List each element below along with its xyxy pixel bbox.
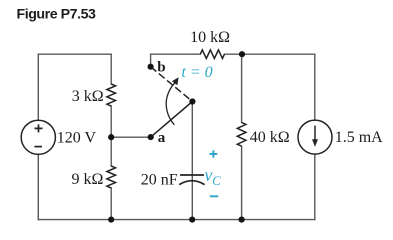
voltage source V 120V circle bbox=[21, 120, 55, 154]
wire left vertical upper bbox=[37, 54, 39, 120]
node b dot bbox=[148, 64, 154, 70]
switch blade solid (pivot to a) bbox=[151, 102, 193, 138]
wire node b stub up bbox=[150, 54, 152, 66]
svg-text:b: b bbox=[157, 59, 165, 75]
wire 9k branch bottom stub bbox=[110, 188, 112, 220]
wire 40k branch top bbox=[241, 54, 243, 122]
wire 3k branch top stub bbox=[110, 54, 112, 84]
svg-text:20 nF: 20 nF bbox=[141, 172, 178, 189]
switch pivot dot bbox=[189, 98, 195, 104]
junction dot bottom capacitor bbox=[189, 217, 195, 223]
current source arrow shaft bbox=[314, 126, 316, 141]
resistor 40k zigzag bbox=[237, 122, 246, 146]
voltage source plus sign bbox=[35, 124, 43, 132]
switch motion arc bbox=[166, 83, 175, 125]
wire 40k branch bottom bbox=[241, 146, 243, 219]
label capacitor minus bbox=[210, 195, 219, 197]
voltage source minus sign bbox=[34, 146, 42, 148]
switch motion arrowhead bbox=[172, 77, 179, 85]
svg-text:t = 0: t = 0 bbox=[181, 64, 212, 81]
svg-text:9 kΩ: 9 kΩ bbox=[72, 171, 104, 188]
resistor 10k zigzag bbox=[200, 50, 224, 59]
junction dot top right bbox=[239, 51, 245, 57]
wire bottom horizontal bbox=[38, 219, 315, 221]
junction dot bottom 40k bbox=[239, 217, 245, 223]
wire top middle to 10k bbox=[151, 53, 201, 55]
svg-text:a: a bbox=[158, 130, 166, 146]
svg-text:vC: vC bbox=[205, 165, 222, 188]
svg-text:10 kΩ: 10 kΩ bbox=[190, 29, 230, 46]
wire right vertical lower bbox=[314, 154, 316, 220]
wire junction to node a bbox=[111, 136, 151, 138]
svg-text:3 kΩ: 3 kΩ bbox=[72, 88, 104, 105]
svg-text:40 kΩ: 40 kΩ bbox=[250, 129, 290, 146]
wire capacitor branch (pivot to bottom) bbox=[191, 102, 193, 220]
wire left vertical lower bbox=[37, 154, 39, 219]
wire right vertical upper bbox=[314, 54, 316, 120]
wire top-left horizontal bbox=[38, 53, 111, 55]
capacitor 20nF curved bottom plate bbox=[179, 181, 204, 185]
svg-text:1.5 mA: 1.5 mA bbox=[335, 129, 383, 146]
junction dot bottom 9k bbox=[108, 217, 114, 223]
resistor 9k zigzag bbox=[107, 166, 116, 188]
label capacitor plus bbox=[210, 150, 218, 158]
svg-text:Figure P7.53: Figure P7.53 bbox=[17, 7, 97, 23]
switch dashed throw (b to pivot) bbox=[151, 67, 193, 102]
current source arrowhead bbox=[312, 139, 318, 147]
wire 10k to top-right corner bbox=[225, 53, 315, 55]
node a dot bbox=[148, 134, 154, 140]
junction dot 3k-9k bbox=[108, 134, 114, 140]
svg-text:120 V: 120 V bbox=[57, 130, 97, 147]
resistor 3k zigzag bbox=[107, 84, 116, 106]
wire 3k-9k middle segment bbox=[110, 106, 112, 166]
current source I 1.5mA circle bbox=[298, 120, 332, 154]
capacitor 20nF top plate bbox=[180, 174, 204, 176]
